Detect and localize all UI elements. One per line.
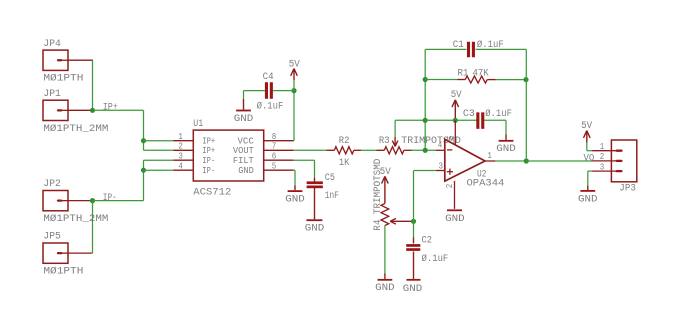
svg-text:JP3: JP3 bbox=[619, 182, 636, 194]
wire U1 pin8 to 5V rail bbox=[293, 91, 295, 141]
svg-text:C5: C5 bbox=[325, 172, 335, 184]
wire to U1 pin2 bbox=[144, 149, 174, 151]
wire IP+ horizontal bbox=[93, 109, 144, 111]
svg-text:1: 1 bbox=[178, 132, 183, 142]
wire JP4 pin to IP+ node bbox=[68, 60, 93, 110]
node pin4 tap bbox=[141, 168, 146, 173]
svg-text:GND: GND bbox=[285, 194, 305, 206]
svg-text:IP-: IP- bbox=[103, 192, 117, 204]
wire IP- horizontal bbox=[93, 200, 144, 202]
wire to U1 pin1 bbox=[144, 140, 174, 142]
svg-text:IP-: IP- bbox=[202, 165, 215, 176]
wire U1 pin6 to C5 bbox=[294, 160, 315, 177]
svg-text:5V: 5V bbox=[451, 89, 463, 101]
wire JP5 pin bbox=[68, 201, 93, 254]
wire feedback vertical right bbox=[525, 49, 527, 161]
svg-text:MØ1PTH: MØ1PTH bbox=[43, 73, 83, 85]
svg-text:1nF: 1nF bbox=[325, 190, 339, 202]
wire to U1 pin3 bbox=[144, 159, 174, 161]
trimpot R3 TRIMPOTSMD bbox=[377, 135, 461, 154]
svg-text:5V: 5V bbox=[289, 58, 301, 70]
power 5V above op-amp bbox=[451, 89, 463, 118]
svg-text:R1: R1 bbox=[458, 67, 469, 79]
svg-text:8: 8 bbox=[272, 132, 277, 142]
ground below R4 bbox=[375, 273, 395, 294]
wire to U1 pin4 bbox=[144, 169, 174, 171]
node pin4 line junction bbox=[423, 148, 428, 153]
svg-text:6: 6 bbox=[272, 152, 277, 162]
capacitor C3 bbox=[463, 108, 512, 129]
wire U1 pin7 to R2 bbox=[294, 149, 327, 151]
ground below C2 bbox=[403, 252, 423, 295]
net label VO bbox=[584, 152, 595, 164]
node R1 right junction bbox=[523, 77, 528, 82]
svg-text:GND: GND bbox=[234, 113, 254, 125]
svg-text:GND: GND bbox=[305, 223, 325, 235]
capacitor C5 bbox=[307, 172, 339, 202]
power 5V above R4 bbox=[380, 166, 392, 204]
resistor R1 47K bbox=[457, 67, 495, 83]
svg-text:VO: VO bbox=[584, 152, 595, 164]
wire R2 to R3 bbox=[361, 149, 376, 151]
svg-text:MØ1PTH_2MM: MØ1PTH_2MM bbox=[43, 123, 108, 135]
svg-text:JP2: JP2 bbox=[43, 178, 61, 190]
svg-text:JP1: JP1 bbox=[43, 88, 61, 100]
svg-text:JP5: JP5 bbox=[43, 231, 61, 243]
svg-text:4: 4 bbox=[178, 162, 183, 172]
wire op-amp output bbox=[495, 160, 526, 162]
svg-text:R3: R3 bbox=[379, 135, 390, 147]
node pin1 tap bbox=[141, 138, 146, 143]
svg-text:C2: C2 bbox=[422, 234, 433, 246]
svg-text:R2: R2 bbox=[339, 135, 350, 147]
resistor R2 1K bbox=[327, 135, 362, 169]
capacitor C2 bbox=[406, 221, 448, 265]
wire JP1 pin bbox=[68, 109, 92, 111]
net label IP- bbox=[103, 192, 117, 204]
svg-text:5: 5 bbox=[446, 136, 456, 141]
ground below op-amp pin2 bbox=[445, 209, 465, 225]
node R4 wiper/C2 junction bbox=[411, 219, 416, 224]
connector JP2 bbox=[43, 178, 108, 225]
node IP- junction bbox=[90, 198, 95, 203]
svg-text:GND: GND bbox=[403, 283, 423, 295]
ground below C4 bbox=[234, 91, 254, 125]
node R1 left junction bbox=[423, 77, 428, 82]
connector JP3 bbox=[592, 140, 637, 194]
svg-text:2: 2 bbox=[600, 152, 605, 162]
svg-text:Ø.1uF: Ø.1uF bbox=[257, 100, 284, 112]
wire wiper node to opamp pin3 bbox=[414, 171, 436, 222]
capacitor C1 bbox=[453, 39, 504, 57]
svg-text:C4: C4 bbox=[263, 71, 274, 83]
svg-text:OPA344: OPA344 bbox=[467, 177, 505, 189]
svg-text:3: 3 bbox=[439, 161, 444, 171]
capacitor C4 bbox=[244, 71, 295, 112]
svg-text:JP4: JP4 bbox=[43, 38, 61, 50]
ground below C5 bbox=[305, 188, 325, 235]
svg-text:1: 1 bbox=[487, 151, 492, 161]
svg-text:1: 1 bbox=[600, 142, 605, 152]
connector JP1 bbox=[43, 88, 108, 135]
ground below U1 pin5 bbox=[285, 185, 305, 205]
wire IP- vertical to U1 bbox=[143, 160, 145, 200]
svg-text:GND: GND bbox=[238, 165, 254, 176]
trimpot R4 TRIMPOTSMD bbox=[372, 159, 414, 231]
svg-text:U1: U1 bbox=[193, 118, 203, 130]
wire R3 wiper up to 5V rail bbox=[395, 120, 425, 137]
wire JP3 pin3 to ground bbox=[588, 171, 592, 186]
connector JP4 bbox=[43, 38, 83, 85]
svg-text:Ø.1uF: Ø.1uF bbox=[422, 253, 449, 265]
svg-text:Ø.1uF: Ø.1uF bbox=[485, 108, 512, 120]
connector JP5 bbox=[43, 231, 83, 278]
wire output to JP3 bbox=[526, 160, 592, 162]
svg-text:GND: GND bbox=[375, 282, 395, 294]
svg-text:GND: GND bbox=[578, 193, 598, 205]
wire R4 bottom to ground bbox=[384, 226, 386, 274]
svg-text:Ø.1uF: Ø.1uF bbox=[477, 39, 504, 51]
svg-text:R4 TRIMPOTSMD: R4 TRIMPOTSMD bbox=[372, 159, 384, 231]
ground below C3 bbox=[496, 120, 516, 155]
node output junction bbox=[524, 158, 529, 163]
node 5V/C3/pin5 junction bbox=[453, 118, 458, 123]
svg-text:5: 5 bbox=[272, 162, 277, 172]
svg-text:ACS712: ACS712 bbox=[193, 186, 231, 198]
svg-text:3: 3 bbox=[178, 152, 183, 162]
svg-text:47K: 47K bbox=[473, 67, 490, 79]
svg-text:MØ1PTH_2MM: MØ1PTH_2MM bbox=[43, 213, 108, 225]
svg-text:7: 7 bbox=[272, 142, 277, 152]
svg-text:2: 2 bbox=[445, 184, 455, 189]
svg-text:3: 3 bbox=[600, 162, 605, 172]
wire R1 line left bbox=[425, 79, 457, 81]
wire 5V rail to C3 bbox=[425, 119, 476, 121]
wire R1 line right bbox=[496, 79, 527, 81]
net label IP+ bbox=[103, 102, 118, 114]
node IP+ junction bbox=[90, 108, 95, 113]
op-amp U1 ACS712 IC bbox=[173, 118, 293, 198]
power 5V above C4 bbox=[289, 58, 301, 90]
ground below JP3 bbox=[578, 186, 598, 206]
power 5V at JP3 bbox=[581, 120, 593, 151]
svg-text:5V: 5V bbox=[581, 120, 593, 132]
wire JP2 pin bbox=[68, 200, 92, 202]
svg-text:4: 4 bbox=[438, 140, 443, 150]
svg-text:2: 2 bbox=[178, 142, 183, 152]
svg-text:IP+: IP+ bbox=[103, 102, 118, 114]
svg-text:GND: GND bbox=[445, 213, 465, 225]
wire C3 to ground bbox=[484, 119, 506, 121]
svg-text:1K: 1K bbox=[339, 157, 350, 169]
svg-text:C3: C3 bbox=[463, 108, 475, 120]
svg-text:GND: GND bbox=[496, 143, 516, 155]
node 5V-rail cross junction bbox=[423, 118, 428, 123]
wire U1 pin5 to ground bbox=[294, 170, 295, 185]
node C4/5V junction bbox=[291, 88, 296, 93]
op-amp U2 OPA344 bbox=[436, 120, 505, 209]
wire C1 top path bbox=[425, 48, 526, 50]
svg-text:MØ1PTH: MØ1PTH bbox=[43, 266, 83, 278]
svg-text:C1: C1 bbox=[453, 39, 464, 51]
wire IP+ vertical to U1 bbox=[143, 110, 145, 150]
wire inverting-node vertical bbox=[424, 49, 426, 150]
wire R3 out to opamp pin4 bbox=[412, 149, 436, 151]
